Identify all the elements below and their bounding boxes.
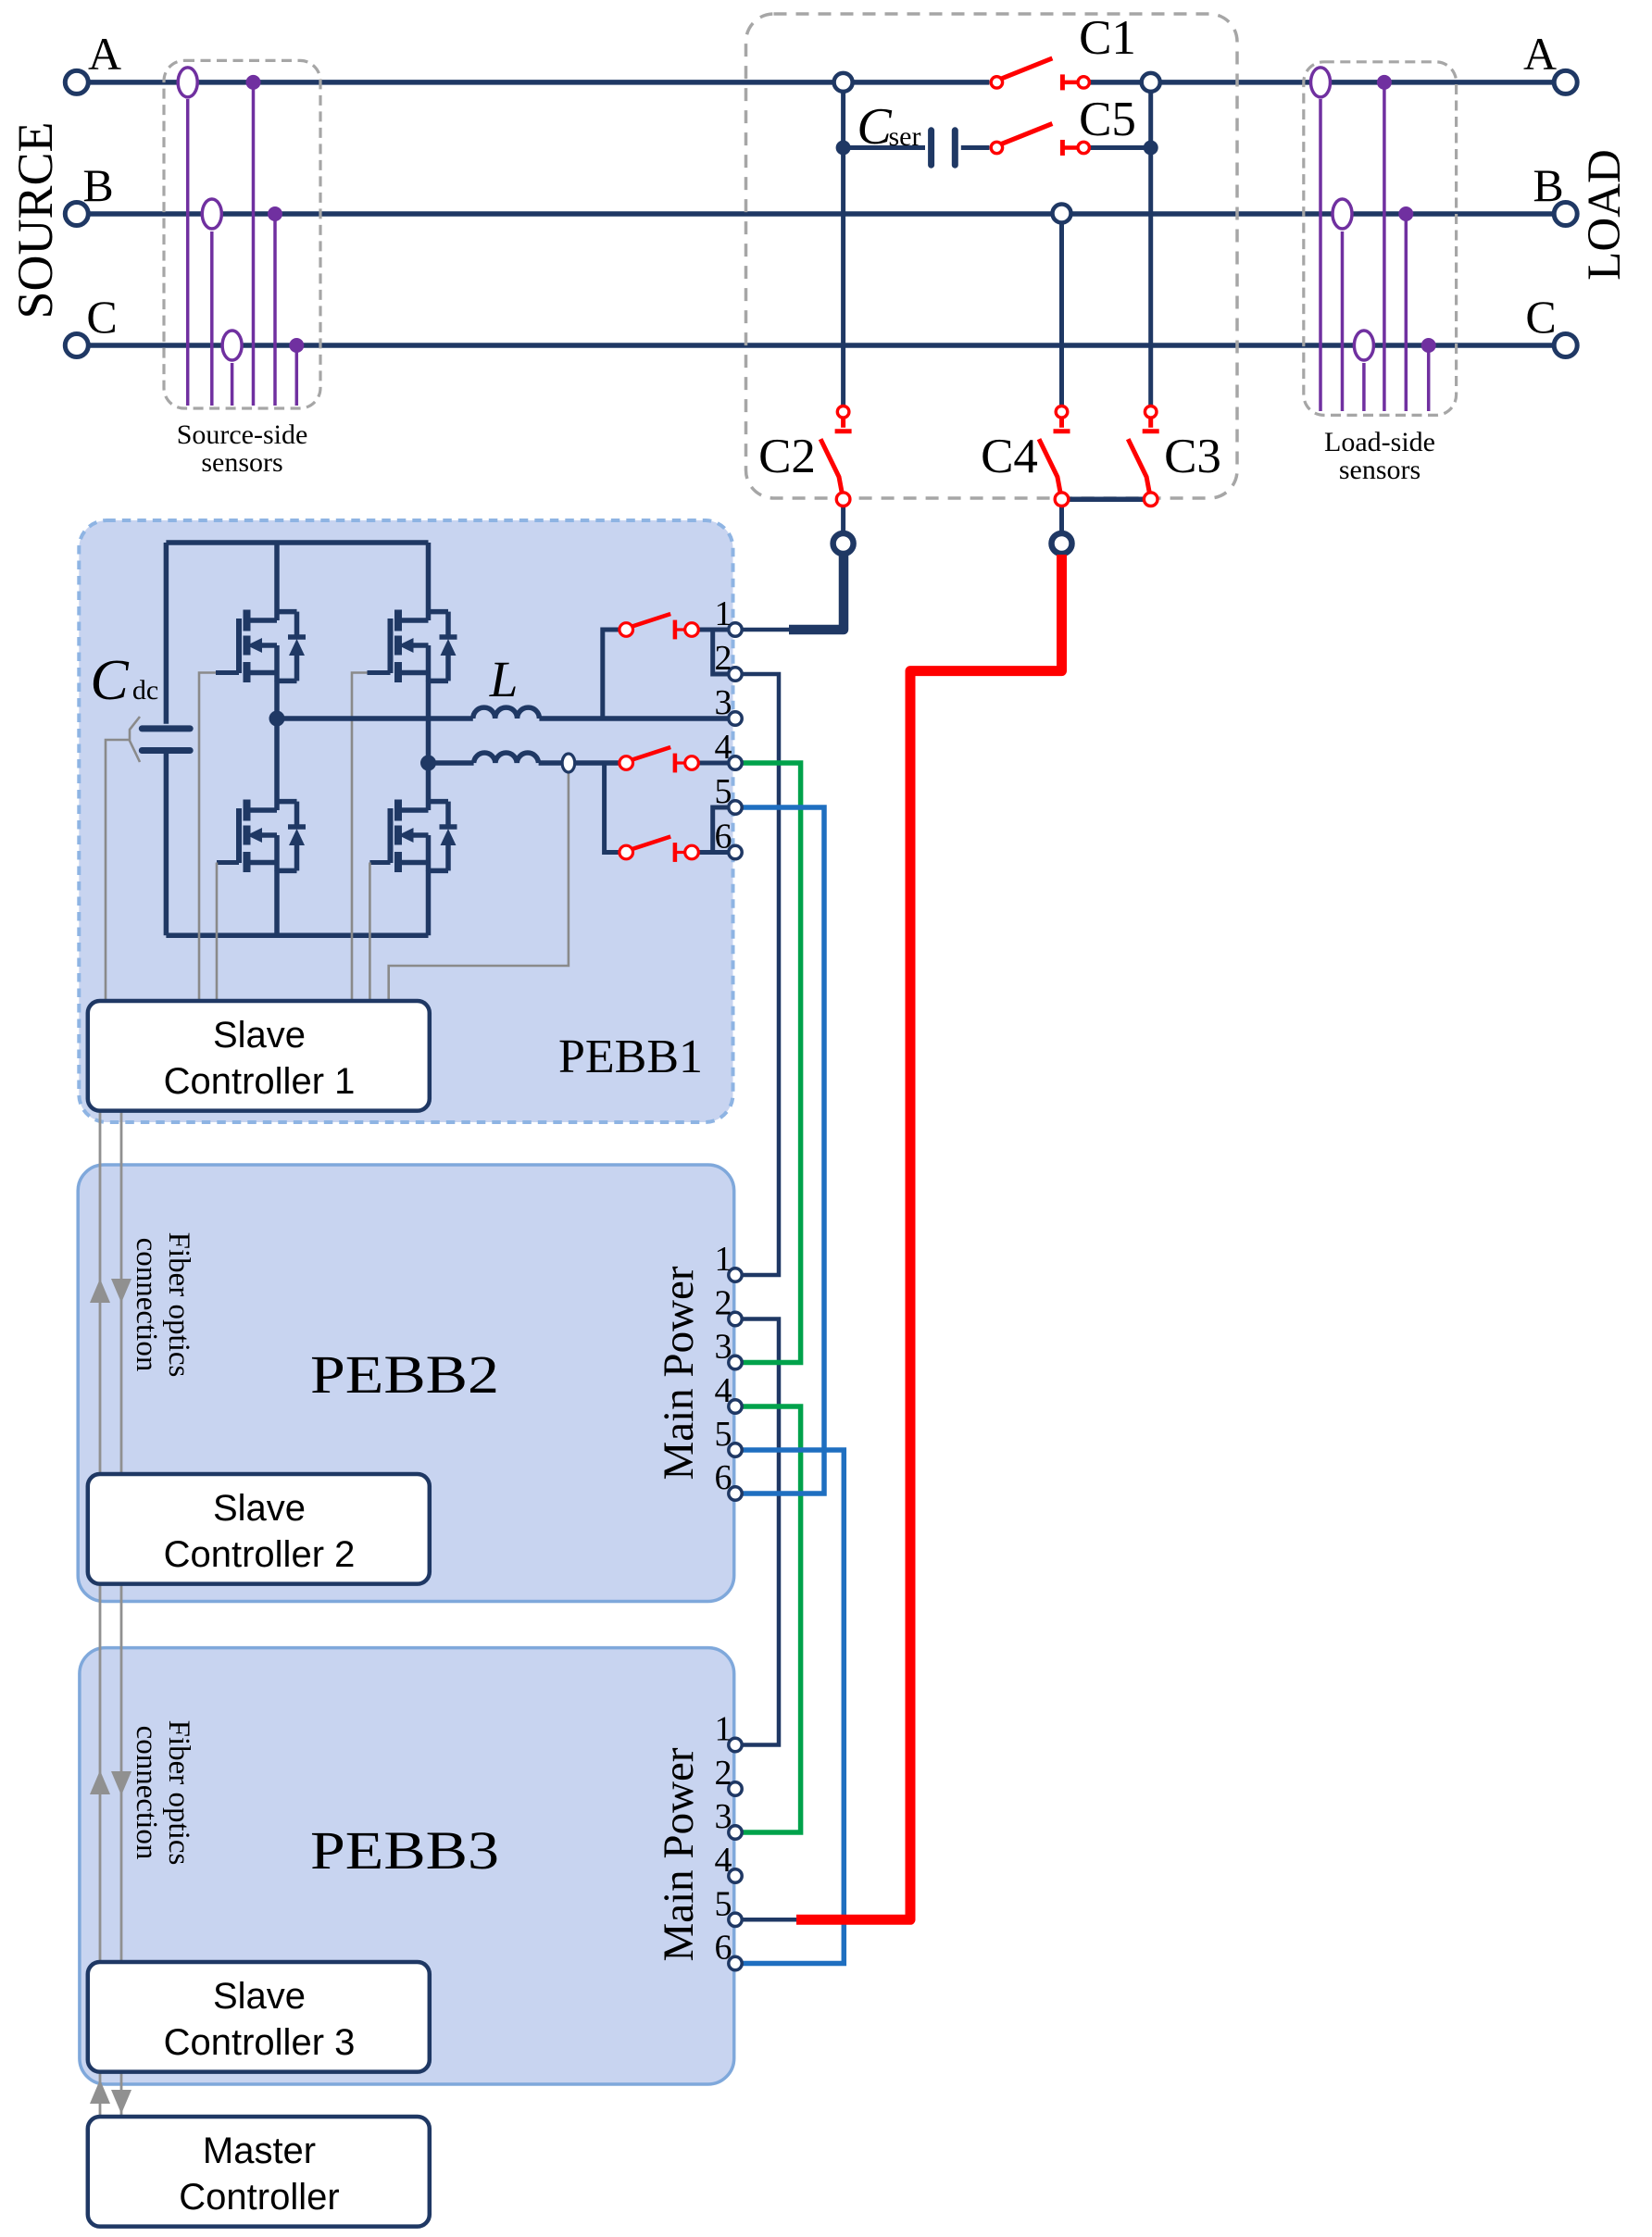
wire C2 drop from phase A	[841, 82, 845, 405]
svg-text:Slave: Slave	[213, 1488, 306, 1529]
node phase B	[1053, 205, 1071, 223]
pin 2 PEBB1	[729, 668, 742, 681]
master controller box	[88, 2117, 430, 2227]
fiber optic lines SC2-SC3	[99, 1584, 102, 1962]
wire M1 drain	[274, 543, 280, 620]
pin 4 PEBB3	[729, 1869, 742, 1882]
svg-text:C4: C4	[981, 430, 1038, 483]
load voltage tap B	[1398, 206, 1413, 411]
svg-text:Controller 1: Controller 1	[164, 1061, 356, 1102]
pin 1 PEBB2	[729, 1268, 742, 1281]
wire DC bottom rail	[166, 933, 428, 939]
svg-text:C2: C2	[758, 430, 816, 483]
svg-text:PEBB1: PEBB1	[558, 1031, 703, 1083]
svg-text:C: C	[90, 649, 129, 712]
pin 3 PEBB2	[729, 1356, 742, 1368]
gate stub M2	[368, 670, 391, 675]
switch before pin6	[619, 837, 698, 862]
svg-text:Fiber optics: Fiber optics	[162, 1720, 195, 1866]
wire phase A right segment	[1089, 80, 1556, 85]
source sensor CT B	[202, 199, 221, 406]
pin 3 PEBB3	[729, 1826, 742, 1839]
source terminal A	[65, 70, 88, 94]
wire switch1 to pin1	[698, 628, 729, 632]
load sensor CT C	[1354, 331, 1373, 411]
pin 4 PEBB2	[729, 1400, 742, 1413]
svg-text:SOURCE: SOURCE	[7, 121, 63, 319]
wire PEBB1 pin2 to PEBB2 pin1	[742, 674, 779, 1275]
contactor C2	[820, 406, 852, 506]
pin 1 PEBB1	[729, 623, 742, 636]
svg-text:1: 1	[715, 1240, 732, 1279]
svg-text:connection: connection	[130, 1726, 163, 1860]
gray gate wire M4	[369, 863, 371, 1004]
transistor M2	[391, 610, 457, 683]
switch before pin1	[619, 614, 698, 639]
wire M1 source to node	[274, 681, 280, 719]
current sensor ellipse	[562, 754, 575, 772]
gray probe on Cdc	[130, 717, 140, 762]
gray gate wire M3	[216, 863, 219, 1004]
junction dot Cser right	[1144, 141, 1158, 156]
slave controller 3 box	[88, 1962, 430, 2072]
pin 5 PEBB3	[729, 1913, 742, 1926]
svg-text:Load-side: Load-side	[1324, 427, 1435, 457]
svg-text:Master: Master	[203, 2131, 316, 2171]
green wire PEBB2 pin4 to PEBB3 pin3	[742, 1406, 801, 1832]
svg-text:C: C	[86, 291, 117, 343]
wire pin5-pin6 tie	[713, 807, 730, 853]
blue wire PEBB1 pin5 to PEBB2 pin6	[742, 807, 824, 1493]
svg-text:1: 1	[715, 1710, 732, 1749]
svg-text:5: 5	[715, 772, 732, 811]
load voltage tap A	[1377, 75, 1392, 411]
wire C3 drop from phase A	[1148, 82, 1153, 405]
wire C4-C3 bottom link	[1062, 496, 1151, 502]
contactor C3	[1128, 406, 1159, 506]
svg-text:sensors: sensors	[1339, 455, 1420, 485]
source voltage tap A	[246, 75, 261, 406]
load voltage tap C	[1421, 338, 1436, 411]
wire C4 to connector	[1059, 506, 1064, 535]
junction dot leg2	[420, 756, 436, 771]
node phase A right	[1142, 73, 1160, 92]
fiber arrow down 3	[111, 2090, 131, 2114]
svg-text:PEBB3: PEBB3	[310, 1820, 499, 1881]
source voltage tap C	[289, 338, 304, 406]
pin 5 PEBB2	[729, 1443, 742, 1456]
load sensor CT A	[1311, 68, 1331, 411]
PEBB2 box	[78, 1165, 734, 1602]
svg-text:4: 4	[715, 1841, 732, 1880]
gate stub M1	[216, 670, 239, 675]
node phase A left	[834, 73, 853, 92]
svg-text:2: 2	[715, 1284, 732, 1323]
wire phase A left segment	[87, 80, 989, 85]
source terminal C	[65, 334, 88, 357]
connector below C4	[1052, 533, 1072, 554]
transistor M4	[391, 800, 457, 873]
svg-text:3: 3	[715, 1797, 732, 1836]
capacitor Cser	[932, 131, 956, 165]
wire PEBB1 pin1 stub	[742, 628, 793, 632]
wire PEBB3 pin5 stub	[742, 1918, 804, 1922]
wire pin1-pin2 tie	[713, 630, 730, 674]
wire Cser branch left	[844, 145, 925, 150]
svg-text:Controller: Controller	[179, 2177, 339, 2218]
source voltage tap B	[268, 206, 282, 406]
PEBB3 box	[80, 1648, 734, 2084]
gate stub M4	[369, 860, 390, 865]
wire inductor L2 to switch	[539, 760, 619, 766]
gray gate wire M2	[352, 673, 368, 1004]
fiber arrow up 2	[90, 1770, 110, 1794]
svg-text:B: B	[1533, 159, 1563, 211]
svg-text:A: A	[88, 28, 121, 80]
svg-text:4: 4	[715, 1371, 732, 1410]
svg-text:4: 4	[715, 728, 732, 767]
transistor M3	[239, 800, 306, 873]
green wire PEBB1 pin4 to PEBB2 pin3	[742, 763, 801, 1363]
wire M4 source to rail	[426, 870, 432, 935]
svg-text:connection: connection	[130, 1238, 163, 1372]
wire DC top rail	[166, 540, 428, 545]
svg-text:C3: C3	[1164, 430, 1221, 483]
wire switch1 feed	[603, 630, 619, 719]
wire C2 to connector	[841, 506, 845, 535]
svg-text:B: B	[82, 159, 113, 211]
svg-text:C1: C1	[1079, 11, 1136, 65]
fiber arrow up 1	[90, 1279, 110, 1303]
svg-text:sensors: sensors	[201, 447, 282, 478]
wire switch6 to pin6	[698, 850, 729, 855]
wire switch4 to pin4	[698, 761, 729, 766]
pin 1 PEBB3	[729, 1738, 742, 1751]
svg-text:2: 2	[715, 1754, 732, 1793]
svg-text:Slave: Slave	[213, 1015, 306, 1056]
thick wire pin1 to C2 connector	[789, 554, 844, 630]
svg-text:C5: C5	[1079, 93, 1136, 146]
source sensor CT A	[178, 68, 197, 406]
pin 6 PEBB3	[729, 1956, 742, 1969]
gray wire Cdc sense	[106, 740, 130, 1003]
source-side sensors dashed box	[164, 60, 320, 408]
contactor C1	[991, 58, 1089, 91]
fiber arrow up 3	[90, 2080, 110, 2104]
svg-text:L: L	[489, 651, 519, 707]
fiber optic lines SC1-SC2	[99, 1107, 102, 1474]
load terminal A	[1554, 70, 1577, 94]
fiber arrow down 2	[111, 1771, 131, 1795]
wire M3 drain	[274, 719, 280, 810]
inductor L2	[474, 753, 539, 763]
switch before pin4	[619, 747, 698, 772]
wire PEBB2 pin2 to PEBB3 pin1	[742, 1319, 779, 1745]
wire leg1 to inductor	[277, 716, 473, 721]
svg-text:6: 6	[715, 818, 732, 856]
transistor M1	[239, 610, 306, 683]
connector below C2	[833, 533, 854, 554]
junction dot Cser left	[836, 141, 851, 156]
svg-text:6: 6	[715, 1929, 732, 1968]
pin 3 PEBB1	[729, 712, 742, 725]
svg-text:2: 2	[715, 639, 732, 678]
junction dot leg1	[269, 711, 285, 727]
svg-text:1: 1	[715, 594, 732, 633]
wire C5 to right node	[1089, 145, 1151, 150]
svg-text:5: 5	[715, 1415, 732, 1454]
svg-text:ser: ser	[889, 121, 921, 152]
svg-text:A: A	[1523, 28, 1557, 80]
load-side sensors dashed box	[1304, 62, 1457, 416]
svg-text:3: 3	[715, 1328, 732, 1367]
slave controller 1 box	[88, 1001, 430, 1111]
svg-text:Source-side: Source-side	[177, 419, 308, 450]
wire Cser to C5	[961, 145, 990, 150]
svg-text:Controller 3: Controller 3	[164, 2022, 356, 2063]
blue wire PEBB2 pin5 to PEBB3 pin6	[742, 1450, 845, 1964]
wire phase C	[87, 343, 1555, 348]
wire M3 source to rail	[274, 870, 280, 935]
contactor C4	[1039, 406, 1070, 506]
gray gate wire M1	[199, 673, 216, 1004]
wire phase B	[87, 211, 1555, 217]
pin 5 PEBB1	[729, 801, 742, 814]
fiber optic lines SC3-Master	[99, 2069, 102, 2117]
pin 2 PEBB3	[729, 1782, 742, 1795]
wire inductor L1 to pin3	[539, 716, 729, 721]
svg-text:Main Power: Main Power	[655, 1266, 703, 1480]
inductor L1	[473, 707, 540, 719]
svg-text:6: 6	[715, 1458, 732, 1497]
wire leg2 to inductor	[429, 760, 474, 766]
contactor C5	[991, 124, 1089, 156]
svg-text:Fiber optics: Fiber optics	[162, 1232, 195, 1378]
gray wire current sensor	[389, 771, 569, 1003]
red wire C4 connector to PEBB3 pin5	[796, 555, 1062, 1919]
wire switch6 feed	[605, 763, 619, 853]
svg-text:PEBB2: PEBB2	[310, 1344, 499, 1405]
wire M2 source to node	[426, 681, 432, 763]
svg-text:LOAD: LOAD	[1579, 149, 1631, 281]
fiber arrow down 1	[111, 1279, 131, 1303]
pin 6 PEBB1	[729, 845, 742, 858]
wire left DC link upper	[164, 543, 169, 724]
source sensor CT C	[222, 331, 242, 406]
load terminal C	[1554, 334, 1577, 357]
pin 4 PEBB1	[729, 756, 742, 769]
load terminal B	[1554, 203, 1577, 226]
PEBB1 box	[79, 520, 732, 1122]
svg-text:dc: dc	[132, 675, 158, 706]
capacitor Cdc	[142, 729, 190, 751]
svg-text:3: 3	[715, 683, 732, 722]
contactor group dashed box	[746, 14, 1238, 498]
source terminal B	[65, 203, 88, 226]
pin 6 PEBB2	[729, 1487, 742, 1500]
pin 2 PEBB2	[729, 1312, 742, 1325]
wire M2 drain	[426, 543, 432, 620]
wire C4 drop from phase B	[1059, 214, 1064, 406]
wire left DC link lower	[164, 754, 169, 936]
label fiber optics connection PEBB2	[130, 1232, 195, 1378]
load sensor CT B	[1333, 199, 1352, 411]
svg-text:Main Power: Main Power	[655, 1747, 703, 1961]
label fiber optics connection PEBB3	[130, 1720, 195, 1866]
svg-text:C: C	[1525, 291, 1556, 343]
svg-text:5: 5	[715, 1884, 732, 1923]
wire M4 drain	[426, 763, 432, 810]
slave controller 2 box	[88, 1474, 430, 1584]
gate stub M3	[217, 860, 239, 865]
svg-text:Slave: Slave	[213, 1976, 306, 2017]
svg-text:Controller 2: Controller 2	[164, 1534, 356, 1575]
svg-text:C: C	[857, 98, 892, 156]
